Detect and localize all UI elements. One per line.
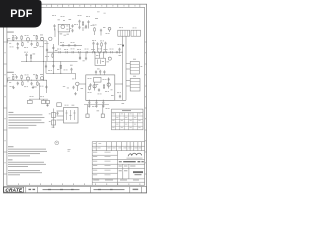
notes block 2 heading: [8, 145, 14, 148]
resistor ch1 b: [21, 35, 23, 40]
label specks fs: [65, 104, 67, 107]
node dot mix d: [53, 61, 54, 62]
tone box innards: [97, 60, 99, 64]
label specks tone: [96, 54, 98, 57]
transistor Q3: [49, 37, 52, 40]
node dot bus a: [122, 52, 123, 53]
resistor mid a: [94, 27, 96, 32]
label specks J5: [133, 58, 136, 61]
zone letters: [5, 5, 147, 163]
capacitor ch2 b: [17, 82, 19, 86]
note bubble: [55, 141, 59, 145]
resistor ch2 c: [22, 81, 24, 86]
wire driver bus: [46, 72, 76, 74]
transistor Q1: [40, 37, 43, 40]
transistor Q2: [40, 77, 43, 80]
capacitor filter1: [88, 101, 90, 105]
capacitor stage d: [71, 24, 73, 28]
connector header J3: [118, 30, 130, 36]
capacitor ch2 c: [31, 82, 33, 86]
capacitor riser a: [92, 42, 94, 46]
ground tee: [46, 104, 49, 107]
wire channel 1 main: [7, 40, 47, 42]
resistor inline mb6: [93, 51, 95, 53]
wire top chain stub: [82, 27, 84, 31]
capacitor drop db: [52, 64, 54, 68]
label specks ch1 below: [10, 46, 12, 49]
wire drop tone a: [94, 52, 96, 58]
wire tee drop b: [43, 99, 45, 100]
wire preamp bus: [60, 44, 82, 46]
wire J5 stub a: [126, 63, 130, 65]
resistor ch1 a: [12, 36, 14, 41]
capacitor fx b: [85, 57, 87, 61]
resistor inline pa3: [74, 44, 76, 46]
wire drop fx a: [79, 52, 81, 59]
label specks above small box: [63, 85, 65, 88]
bottom strip frame: [3, 187, 146, 193]
wire pad drop b: [102, 105, 104, 115]
capacitor riser d: [104, 42, 106, 46]
capacitor filter3: [102, 101, 104, 105]
revision table title: [122, 109, 131, 112]
resistor ch1 e: [37, 42, 39, 47]
sheet inner border: [7, 7, 145, 185]
resistor pa r1: [103, 84, 105, 89]
relay box a: [27, 100, 32, 103]
node dot mix a: [26, 61, 27, 62]
label specks coupling: [24, 51, 26, 54]
resistor ch1 c: [22, 42, 24, 47]
footswitch innards: [65, 110, 75, 120]
label specks headers: [119, 26, 121, 29]
approval signature: [128, 153, 142, 156]
label specks bus mid: [118, 43, 120, 46]
ground filter3: [102, 104, 105, 107]
resistor ch2 d: [36, 74, 38, 79]
capacitor top a: [53, 24, 55, 28]
resistor coupling b: [30, 54, 32, 59]
transistor Q5: [108, 57, 111, 60]
capacitor ch1 b: [17, 42, 19, 46]
capacitor ch2 a: [16, 75, 18, 79]
resistor inline pa1: [62, 44, 64, 46]
capacitor ch1 c: [31, 43, 33, 47]
wire fs stub a: [57, 110, 64, 112]
capacitor above box b: [99, 70, 101, 74]
label specks top cluster extra: [58, 19, 60, 22]
label speck fx: [83, 60, 85, 63]
tone circuit box: [95, 58, 106, 65]
notes block 3 text: [8, 162, 46, 175]
bottom row fields: [93, 179, 99, 182]
label specks Q6: [72, 78, 74, 81]
capacitor pa c2: [108, 78, 110, 82]
title block grid: [92, 142, 144, 186]
node dot ch2 c: [36, 80, 37, 81]
node dot tee: [39, 99, 40, 100]
capacitor top e: [87, 20, 89, 24]
wire Q3 emitter: [46, 41, 48, 61]
capacitor fs a: [56, 112, 58, 116]
resistor inline mb3: [72, 51, 74, 53]
wire mix bus: [21, 60, 78, 62]
wire notes col: [53, 109, 55, 129]
revision table entries: [112, 114, 140, 128]
wire Q3 collector: [52, 44, 54, 61]
resistor inline pa2: [68, 44, 70, 46]
capacitor bus low: [119, 95, 121, 99]
pot VOLUME ch2: [26, 77, 29, 80]
resistor inline mb4: [79, 51, 81, 53]
wire tee drop a: [29, 99, 31, 100]
wire top cluster link: [70, 27, 72, 29]
capacitor above box c: [103, 70, 105, 74]
resistor ch1 d: [36, 35, 38, 40]
resistor ch2 e: [37, 81, 39, 86]
capacitor pa c1: [89, 83, 91, 87]
node dot tone a: [94, 52, 95, 53]
pad terminal a: [86, 114, 89, 118]
ground ch2 mid: [32, 86, 35, 89]
ground filter2: [95, 104, 98, 107]
notes block 1 text: [8, 114, 44, 128]
pad terminal b: [101, 114, 104, 118]
CRATE logo box: [4, 187, 24, 192]
stray specks right of notes: [68, 148, 71, 151]
wire Q6 col: [76, 86, 78, 92]
notes block 3 heading: [8, 158, 13, 161]
node dot ch2 a: [21, 80, 22, 81]
wire fs stub c: [57, 119, 64, 121]
sheet outer border: [3, 4, 146, 193]
resistor ch2 a: [12, 76, 14, 81]
node dot box bus: [122, 83, 123, 84]
label specks risers: [92, 39, 94, 42]
capacitor above box a: [95, 70, 97, 74]
node dot ch1 b: [31, 40, 32, 41]
notes block 1 heading: [8, 111, 13, 114]
wire drop da: [45, 61, 47, 73]
wire ch2 down: [45, 80, 47, 93]
node dot rail3: [103, 100, 104, 101]
capacitor riser b: [96, 42, 98, 46]
wire ch2 to tee: [39, 83, 41, 99]
capacitor coupling a: [25, 53, 27, 57]
relay box c: [46, 100, 50, 103]
strip field 1: [29, 189, 32, 190]
label specks preamp bus: [60, 41, 62, 44]
top border zone ticks: [18, 4, 139, 7]
wire box to bus: [115, 83, 123, 85]
wire bus V-: [125, 36, 127, 100]
ground ch2 input: [12, 86, 15, 89]
input jack J1: [8, 39, 12, 44]
wire mid a stub: [94, 32, 96, 35]
small box upper: [57, 103, 62, 107]
label specks ch2 below: [10, 85, 12, 88]
ground ch1 input: [17, 46, 20, 49]
wire fs stub b: [57, 115, 64, 117]
component on bus V+: [122, 45, 124, 47]
input jack J2: [8, 78, 12, 83]
wire tee horizontal: [29, 98, 48, 100]
resistor inline mb5: [86, 51, 88, 53]
revision table grid: [112, 109, 144, 130]
resistor ch2 b: [21, 75, 23, 80]
resistor inline mb10: [116, 51, 118, 53]
resistor inline mb9: [111, 51, 113, 53]
capacitor drop da: [45, 65, 47, 69]
capacitor top c: [78, 26, 80, 30]
svg-text:CRATE: CRATE: [5, 188, 23, 194]
wire ch1 to mix bus: [43, 41, 45, 62]
capacitor bus a: [118, 48, 120, 52]
wire J6 stub b: [126, 85, 130, 87]
wire pad drop a: [87, 105, 89, 115]
ic box power: [94, 77, 101, 82]
label specks bus low: [117, 91, 119, 94]
wire driver down: [75, 73, 77, 79]
wire drop dc: [60, 61, 62, 73]
connector J5: [130, 62, 139, 75]
node dot tone c: [103, 52, 104, 53]
resistor stage c: [52, 53, 54, 58]
resistor drop dc: [60, 64, 62, 69]
label specks power amp: [88, 77, 90, 80]
resistor inline mb1: [59, 51, 61, 53]
capacitor ch1 a: [16, 36, 18, 40]
wire coupling a stub: [26, 57, 28, 62]
wire ic stub: [54, 29, 56, 38]
model number text: [133, 171, 143, 173]
title row fields: [119, 165, 122, 168]
wire main bus: [47, 51, 122, 53]
strip field 2: [94, 189, 125, 190]
wire supply rail2: [84, 104, 109, 106]
label specks driver: [48, 69, 50, 72]
wire bus V+: [121, 36, 123, 100]
drawing number text: [119, 161, 122, 162]
label specks rail: [92, 105, 94, 108]
label CHANNEL 1: [7, 31, 14, 34]
label specks top row: [52, 14, 54, 17]
wire top e stub: [88, 24, 90, 29]
sheet fields: [119, 169, 122, 172]
wire mix to ch2: [43, 61, 45, 80]
capacitor top b: [78, 20, 80, 24]
resistor riser c: [101, 42, 103, 47]
label speck above box: [97, 68, 100, 71]
label specks far top: [97, 11, 100, 14]
node dot mix b: [30, 61, 31, 62]
capacitor ch2 down: [45, 85, 47, 89]
capacitor filter2: [95, 101, 97, 105]
strip rev box: [133, 189, 139, 190]
pot GAIN: [61, 25, 65, 29]
label specks ch2 above: [12, 73, 14, 76]
transistor Q4: [108, 27, 111, 30]
wire pa chain2: [108, 78, 110, 89]
ground Q6: [74, 92, 77, 95]
wire channel 2 main: [7, 79, 47, 81]
capacitor fx a: [79, 56, 81, 60]
wire coupling b stub: [30, 59, 32, 61]
page background: [0, 0, 149, 198]
node dot driver a: [53, 73, 54, 74]
title block labels: [93, 143, 142, 175]
capacitor stage a: [46, 48, 48, 52]
node dot ch2 join: [43, 80, 44, 81]
ground filter1: [88, 104, 91, 107]
bottom border zone ticks: [18, 183, 139, 185]
node dot rail2: [96, 100, 97, 101]
wire J6 stub a: [126, 80, 130, 82]
pot VOLUME ch1: [26, 38, 29, 41]
label specks ch1 above: [12, 34, 14, 37]
label specks main bus: [57, 48, 59, 51]
footswitch box: [64, 108, 79, 124]
power amp outline box: [86, 75, 115, 100]
wire drop tone b: [99, 52, 101, 58]
node dot mix c: [43, 61, 44, 62]
wire pa chain1: [94, 82, 96, 90]
node dot driver b: [60, 73, 61, 74]
side border zone ticks: [3, 42, 146, 174]
resistor inline mb2: [66, 51, 68, 53]
wire drop tone c: [103, 52, 105, 58]
resistor inline mb8: [105, 51, 107, 53]
label specks notes col: [49, 113, 51, 116]
capacitor driver d: [70, 68, 72, 72]
label specks top mid: [74, 23, 76, 26]
power amp extra parts: [89, 86, 91, 91]
transistor Q8: [107, 83, 110, 86]
notes block 2 text: [8, 149, 47, 157]
connector header J4: [131, 30, 141, 36]
transistor Q6: [76, 82, 79, 85]
node dot ch2 b: [31, 80, 32, 81]
resistor top d: [82, 21, 84, 26]
label specks J6: [133, 75, 136, 78]
wire drop db: [52, 61, 54, 73]
svg-text:PDF: PDF: [10, 8, 32, 20]
strip title text: [43, 189, 80, 190]
wire Q6 to amp: [79, 83, 86, 85]
wire supply rail: [86, 99, 126, 101]
node dot ch1 c: [36, 40, 37, 41]
capacitor mid b: [100, 29, 102, 33]
component box nc2: [52, 120, 56, 125]
capacitor top chain extra: [85, 25, 87, 29]
wire J5 stub b: [126, 68, 130, 70]
capacitor Q6 byp: [72, 86, 74, 90]
label specks stage col: [45, 42, 47, 45]
capacitor stage b: [52, 46, 54, 50]
node dot ch1 a: [21, 40, 22, 41]
connector J6: [130, 79, 140, 92]
label CHANNEL 2: [7, 71, 14, 74]
transistor Q7: [93, 85, 96, 88]
PDF badge: [0, 0, 42, 28]
resistor inline mb7: [99, 51, 101, 53]
relay box b: [42, 100, 46, 103]
label specks mid loose: [93, 24, 95, 27]
node dot rail1: [89, 100, 90, 101]
ic stage box: [58, 24, 69, 32]
label specks tee: [30, 95, 32, 98]
component box nc1: [52, 113, 56, 118]
